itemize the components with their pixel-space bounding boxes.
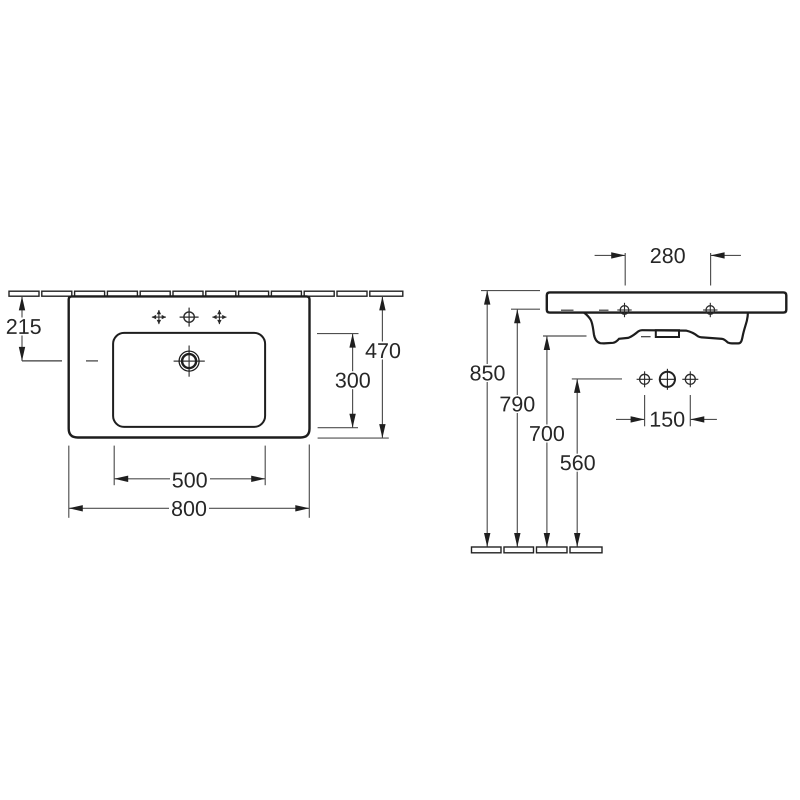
- dimension 215 line: [21, 296, 23, 361]
- dimension 470 arrows: [379, 296, 385, 438]
- dimension 790 extension line (top): [511, 308, 540, 310]
- faucet hole inner circle (top view): [182, 354, 196, 368]
- left tap hole (front view): [637, 371, 653, 387]
- dimension 500 arrows: [114, 476, 265, 482]
- right tap hole (front view): [682, 371, 698, 387]
- dimension 500 extension lines: [114, 446, 265, 486]
- dimension 800 arrows: [69, 505, 309, 511]
- washbasin outer rim (top view): [69, 296, 310, 437]
- dimension 800 line: [69, 507, 309, 509]
- faucet hole outer circle (top view): [179, 351, 199, 371]
- horizontal centerline dashes (top view): [22, 360, 98, 362]
- dimension 700 label: [527, 425, 567, 443]
- dimension 560 line: [576, 379, 578, 547]
- floor tile strip (front view): [472, 547, 603, 553]
- dimension 300 extension lines: [317, 334, 359, 428]
- bowl underside profile (front view): [584, 313, 748, 344]
- dimension 280 arrows: [611, 252, 724, 258]
- dimension 800 label: [169, 499, 209, 517]
- center tap hole marker (top view): [180, 308, 199, 327]
- dimension 850 arrows: [484, 291, 490, 547]
- dimension 700 arrows: [544, 336, 550, 547]
- left tap hole marker (top view): [152, 310, 166, 324]
- dimension 500 label: [170, 470, 210, 488]
- dimension 215 label: [4, 318, 43, 336]
- inner bowl (top view): [113, 333, 265, 427]
- dimension 300 label: [333, 371, 373, 389]
- dimension 470 line: [381, 296, 383, 438]
- right fixing hole on slab (front view): [703, 303, 717, 317]
- dimension 470 extension line (bottom): [318, 437, 389, 439]
- dimension 150 extension lines: [645, 395, 691, 426]
- dimension 150 label: [651, 412, 684, 427]
- dimension 700 extension line (top): [543, 335, 587, 337]
- dimension 850 line: [486, 291, 488, 547]
- dimension 560 label: [558, 454, 598, 472]
- dimension 300 line: [352, 334, 354, 428]
- dimension 790 arrows: [514, 309, 520, 547]
- dimension 470 label: [363, 342, 403, 360]
- right tap hole marker (top view): [212, 310, 226, 324]
- dimension 700 line: [546, 336, 548, 547]
- dimension 790 line: [516, 309, 518, 547]
- dimension 800 extension lines: [69, 445, 309, 518]
- dimension 790 label: [497, 395, 537, 413]
- basin slab (front view): [547, 292, 787, 312]
- dimension 280 lines: [595, 254, 741, 256]
- dimension 215 arrows: [19, 296, 25, 361]
- dimension 560 arrows: [574, 379, 580, 547]
- centerline dash under drain tab (front view): [641, 336, 651, 338]
- dimension 300 arrows: [349, 334, 355, 428]
- dimension 150 arrows: [631, 416, 705, 422]
- dimension 850 extension line (top): [481, 290, 540, 292]
- dimension 280 extension lines: [625, 253, 710, 286]
- slab centerline dashes (front view): [561, 309, 609, 311]
- dimension 280 label: [651, 248, 685, 263]
- faucet hole centerline cross (top view): [174, 346, 205, 377]
- dimension 850 label: [468, 364, 508, 382]
- drain tab under bowl (front view): [656, 330, 679, 337]
- left fixing hole on slab (front view): [617, 303, 631, 317]
- center tap hole (front view): [659, 369, 676, 390]
- dimension 150 lines: [616, 418, 717, 420]
- wall tile strip above top view: [9, 291, 403, 296]
- dimension 500 line: [114, 478, 265, 480]
- dimension 560 extension line (top): [572, 378, 622, 380]
